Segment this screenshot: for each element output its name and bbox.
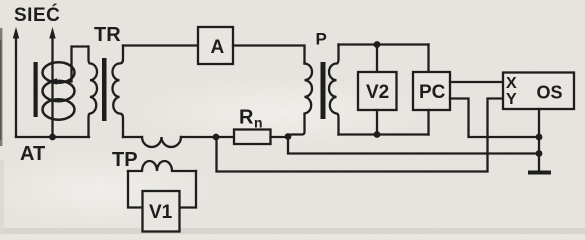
node V2 top junction — [374, 41, 381, 48]
wire: PC lower stub down to ground line — [450, 99, 539, 138]
transformer TR primary — [89, 47, 98, 138]
TR core — [102, 58, 107, 121]
wire: PC X output to OS — [450, 81, 503, 83]
ground — [528, 171, 551, 175]
voltmeter V2 — [358, 72, 397, 110]
wire: P secondary bottom rail — [339, 133, 429, 135]
wire: A to P primary top — [233, 46, 305, 64]
node junction at x=288 — [285, 133, 292, 140]
AT tap arrow wire — [56, 47, 88, 82]
wire: bottom rail TR to TP coil — [123, 136, 142, 138]
autotransformer AT coil — [43, 62, 75, 82]
transformer P secondary — [329, 45, 339, 135]
mains arrow right / AT winding top lead — [51, 35, 53, 137]
transformer TR secondary — [113, 46, 124, 138]
wire: Y input from below — [217, 99, 504, 172]
wire: PC top branch — [427, 45, 429, 73]
wire: PC bottom branch — [427, 110, 429, 135]
oscilloscope OS — [503, 73, 574, 110]
ammeter A — [198, 27, 233, 64]
voltmeter V1 — [143, 191, 180, 232]
transformer TP secondary — [128, 161, 196, 171]
mains arrow left — [15, 35, 17, 137]
scan edge artifacts — [0, 28, 2, 146]
transformer P primary — [288, 64, 312, 137]
paper grain — [0, 0, 1, 1]
node junction on OS ground line lower — [536, 150, 543, 157]
node V2 bottom junction — [374, 131, 381, 138]
transformer TP primary (in series with bottom rail) — [142, 137, 181, 147]
wire: P secondary top rail — [339, 43, 429, 45]
wire: TP secondary to V1 — [128, 171, 143, 208]
box PC — [413, 72, 450, 110]
P core — [321, 62, 326, 119]
wire: AT bottom rail — [16, 136, 89, 138]
wire: V2 top branch — [376, 45, 378, 73]
wire: top rail TR to A — [123, 44, 198, 46]
wire: bottom rail TP to Rn — [181, 136, 234, 138]
resistor Rn — [234, 130, 271, 145]
AT core — [34, 62, 38, 117]
node AT bottom junction — [49, 134, 56, 141]
wire: V2 bottom branch — [376, 110, 378, 135]
node junction on OS ground line upper — [536, 134, 543, 141]
wire: Rn to P primary bottom — [271, 136, 289, 138]
wire: OS to ground — [538, 109, 540, 170]
wire: Rn node to OS ground line — [288, 137, 539, 154]
node junction at x=216 — [213, 134, 220, 141]
